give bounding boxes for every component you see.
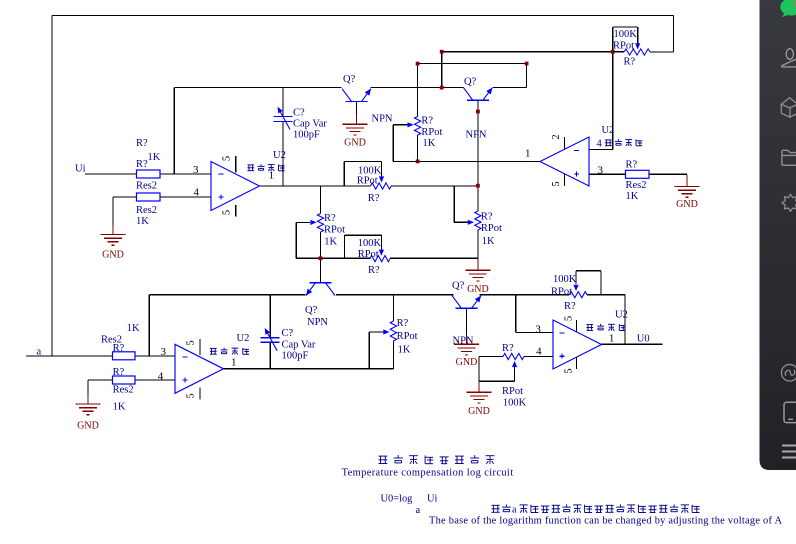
wire U2C output net y369: [223, 368, 394, 370]
svg-text:RPot: RPot: [551, 287, 572, 298]
potentiometer pot4v zigzag: [475, 211, 481, 230]
ground symbol at R2: [101, 235, 126, 261]
svg-text:GND: GND: [676, 199, 698, 210]
wire cap C2 branch upper: [269, 295, 271, 338]
svg-text:NPN: NPN: [466, 130, 487, 141]
potentiometer pot2v zigzag: [317, 214, 323, 233]
wire Q2 base drop to net y186: [477, 100, 479, 185]
svg-text:3: 3: [193, 164, 199, 176]
svg-text:3: 3: [535, 324, 541, 336]
wire feedback drop to U2D output: [624, 295, 626, 345]
resistor R1 body: [137, 170, 161, 178]
ground symbol at Q1: [343, 124, 368, 148]
svg-text:Ui: Ui: [427, 494, 438, 505]
junction at potA left terminal: [611, 50, 615, 54]
ground symbol at potE: [467, 392, 492, 417]
potentiometer potC labels: [357, 166, 382, 205]
junction at Q4 base on net y258: [319, 256, 323, 260]
potentiometer pot6v wiper arrow: [383, 329, 389, 334]
op-amp U2D triangle: [553, 320, 602, 369]
op-amp U2C minus input mark: [183, 356, 188, 358]
power stem GND at R2: [112, 225, 114, 235]
svg-text:Q?: Q?: [305, 305, 318, 316]
potentiometer pot3v labels: [421, 116, 442, 149]
svg-text:1K: 1K: [148, 152, 161, 163]
sidebar circle-s icon: [781, 365, 796, 382]
potentiometer potE wiper arrow: [512, 361, 517, 367]
wire potA box left vertical: [612, 27, 614, 52]
wire potA box top: [613, 26, 638, 28]
resistor R6 body: [113, 376, 136, 384]
sidebar user icon: [782, 49, 796, 67]
sidebar red notification badge: [795, 0, 796, 8]
svg-text:100K: 100K: [358, 238, 382, 249]
wire Q1 collector net from op-amp U2A feedback: [174, 87, 341, 89]
capacitor C1 labels: [293, 108, 327, 141]
svg-text:4: 4: [536, 346, 542, 358]
wire U2A output net y186 left part: [260, 185, 371, 187]
svg-text:R?: R?: [421, 116, 433, 127]
transistor Q2 symbol: [463, 88, 492, 101]
resistor R2 labels: [136, 205, 157, 227]
svg-text:Res2: Res2: [113, 385, 134, 396]
wire corner x515 drop to U2D pin3: [515, 295, 517, 333]
svg-text:R?: R?: [626, 160, 638, 171]
wire U2D pin3 lead: [516, 332, 553, 334]
wire U2A feedback vertical: [173, 88, 175, 174]
svg-text:R?: R?: [368, 265, 380, 276]
wire pot2v bottom through junction to Q4 base: [320, 232, 322, 283]
op-amp U2C top power stub: [199, 339, 201, 355]
svg-text:C?: C?: [293, 108, 305, 119]
svg-text:100K: 100K: [553, 274, 577, 285]
wire pot4v wiper drop from net y186: [453, 186, 455, 222]
op-amp U2A triangle: [211, 162, 260, 211]
op-amp U2A minus input mark: [219, 173, 224, 175]
svg-text:NPN: NPN: [307, 317, 328, 328]
svg-text:1K: 1K: [113, 402, 126, 413]
wire pot3v top terminal from junction y63: [417, 64, 419, 117]
power stem GND at potE: [478, 381, 480, 392]
wire R6 to U2C pin4: [135, 379, 175, 381]
transistor Q1 symbol: [342, 89, 371, 102]
wire Q2 emitter to corner: [493, 87, 527, 89]
svg-text:5: 5: [222, 210, 233, 215]
potentiometer potD labels: [551, 274, 577, 312]
wire net y295 left part: [149, 294, 305, 296]
svg-text:5: 5: [564, 368, 575, 373]
svg-text:R?: R?: [502, 343, 514, 354]
transistor Q4 symbol flipped: [306, 283, 335, 296]
wire net y52 from Q2 junction to potA: [442, 51, 624, 53]
capacitor C1 plates: [274, 117, 293, 122]
sidebar tablet icon: [784, 402, 796, 422]
svg-text:1K: 1K: [423, 138, 436, 149]
wire pot2v wiper box left vertical: [295, 222, 297, 258]
wire pot4v wiper tail: [454, 221, 468, 223]
wire Q1 base drop: [356, 101, 358, 114]
svg-text:Cap Var: Cap Var: [293, 119, 327, 130]
op-amp U2C plus input mark: [183, 378, 188, 383]
resistor R5 labels: [101, 323, 140, 354]
svg-text:100pF: 100pF: [293, 130, 320, 141]
wire R2 left to GND drop: [113, 196, 137, 198]
svg-text:U0: U0: [637, 334, 650, 345]
wire pot6v wiper tail: [369, 331, 384, 333]
svg-text:U2: U2: [237, 333, 250, 344]
junction at pot3v top: [416, 62, 420, 66]
op-amp U2B top power stub: [564, 137, 566, 149]
svg-text:R?: R?: [481, 212, 493, 223]
wire potA wiper tail: [637, 27, 639, 44]
op-amp U2A bottom power stub: [235, 205, 237, 217]
svg-text:3: 3: [598, 164, 604, 176]
svg-text:U2: U2: [615, 310, 628, 321]
svg-text:R?: R?: [136, 159, 148, 170]
svg-text:Ui: Ui: [75, 164, 86, 175]
svg-text:GND: GND: [102, 250, 124, 261]
svg-text:R?: R?: [397, 318, 409, 329]
resistor R5 body: [113, 352, 136, 360]
potentiometer pot3v zigzag: [415, 117, 421, 136]
wire R1 to U2A pin3: [160, 173, 211, 175]
svg-text:2: 2: [551, 134, 562, 139]
wire node a lead: [26, 355, 113, 357]
ground symbol at R6: [76, 404, 101, 432]
op-amp U2A plus input mark: [219, 195, 224, 200]
svg-text:Res2: Res2: [626, 180, 647, 191]
wire Q1 emitter to junction x441: [371, 87, 442, 89]
wire U2C feedback left vertical: [148, 295, 150, 356]
potentiometer potC wiper arrow: [379, 176, 384, 182]
potentiometer potD wiper arrow: [573, 285, 578, 291]
wire potD box wiper tail: [575, 271, 577, 284]
potentiometer pot6v labels: [397, 318, 418, 356]
capacitor C2 labels: [282, 328, 316, 362]
wire potB wiper tail: [380, 235, 382, 251]
junction at x441 y87: [440, 86, 444, 90]
svg-text:The base of the logarithm func: The base of the logarithm function can b…: [429, 516, 782, 527]
resistor R3 body: [626, 170, 650, 178]
wire Ui input lead: [85, 173, 137, 175]
svg-text:GND: GND: [344, 138, 366, 149]
svg-text:R?: R?: [113, 367, 125, 378]
wire R3 to GND corner: [648, 173, 687, 175]
op-amp U2C comment jichengyunfang: [210, 348, 249, 355]
transistor Q3 symbol: [452, 296, 481, 309]
op-amp U2B bottom power stub: [564, 174, 566, 186]
wire R5 to U2C pin3: [135, 355, 175, 357]
op-amp U2D comment jichengyunfang: [586, 324, 625, 331]
svg-text:RPot: RPot: [421, 127, 442, 138]
svg-text:U2: U2: [602, 125, 615, 136]
svg-text:4: 4: [597, 139, 603, 150]
wire net y161 U2B output: [393, 160, 540, 162]
svg-text:1K: 1K: [136, 216, 149, 227]
ground symbol at R3: [675, 187, 700, 210]
capacitor C1 variable arrow: [278, 107, 291, 130]
wire vertical x441 down to emitter net: [441, 52, 443, 88]
wire feedback loop left drop to node a: [51, 16, 53, 357]
wire net y295 potD right to corner: [587, 294, 625, 296]
sidebar gear icon: [782, 194, 796, 211]
wire pot3v bottom terminal to net y161: [417, 135, 419, 161]
op-amp U2D top power stub: [576, 320, 578, 332]
svg-text:RPot: RPot: [357, 176, 378, 187]
svg-text:1K: 1K: [398, 345, 411, 356]
potentiometer potA wiper arrow: [635, 43, 640, 49]
svg-text:U0=log: U0=log: [381, 494, 413, 505]
potentiometer potA labels: [613, 29, 637, 68]
potentiometer potD zigzag: [570, 292, 588, 298]
op-amp U2B plus input mark: [574, 172, 579, 177]
power stem GND at Q1: [356, 114, 358, 124]
wire potE box left vertical: [478, 357, 480, 382]
junction at pot4v top on net y186: [476, 184, 480, 188]
wire potE left terminal: [479, 356, 503, 358]
svg-text:GND: GND: [468, 406, 490, 417]
sidebar folder icon: [782, 150, 796, 165]
svg-text:100K: 100K: [614, 29, 638, 40]
wire potE box bottom: [479, 380, 515, 382]
svg-text:GND: GND: [456, 357, 478, 368]
note chinese tiaojie: [492, 504, 511, 512]
sidebar hamburger menu icon: [782, 446, 796, 458]
svg-text:1: 1: [525, 148, 531, 160]
resistor R6 labels: [113, 367, 134, 413]
wire U2B pin4 vertical to potA junction: [612, 52, 614, 150]
op-amp U2C triangle: [175, 344, 224, 393]
svg-text:RPot: RPot: [481, 223, 502, 234]
svg-text:1: 1: [609, 333, 615, 345]
junction on Q2 base wire: [476, 110, 480, 114]
power stem GND at pot4v: [477, 258, 479, 270]
wire R2 to U2A pin4: [160, 196, 211, 198]
potentiometer pot2v wiper arrow: [310, 220, 316, 225]
wire potB box left vertical: [344, 235, 346, 258]
title chinese wendu buchang duishu dianlu: [379, 455, 495, 464]
wire Q2 collector from junction: [442, 87, 464, 89]
junction at emitter corner x526: [525, 62, 529, 66]
wire pot3v wiper tail: [393, 124, 409, 126]
potentiometer pot3v wiper arrow: [408, 122, 414, 127]
svg-text:U2: U2: [273, 150, 286, 161]
potentiometer pot4v labels: [481, 212, 502, 248]
wire Q3 base drop: [466, 308, 468, 334]
svg-text:5: 5: [222, 156, 233, 161]
wire potD box top: [576, 270, 601, 272]
svg-text:1K: 1K: [482, 236, 495, 247]
potentiometer potB labels: [358, 238, 382, 276]
svg-text:3: 3: [161, 346, 167, 358]
svg-text:RPot: RPot: [397, 331, 418, 342]
sidebar green chat bubble icon: [780, 0, 796, 17]
junction at Q2 top net: [440, 50, 444, 54]
svg-text:Res2: Res2: [136, 205, 157, 216]
ground symbol at pot4v: [465, 270, 490, 295]
wire pot3v wiper box left vertical: [392, 125, 394, 162]
svg-text:1K: 1K: [626, 191, 639, 202]
wire net y63 between junctions: [418, 63, 527, 65]
wire net y295 middle part: [336, 294, 454, 296]
svg-text:5: 5: [564, 316, 575, 321]
svg-text:RPot: RPot: [324, 225, 345, 236]
junction at pot3v bottom on net y161: [416, 160, 420, 164]
wire pot2v wiper tail: [296, 221, 310, 223]
potentiometer potE labels: [502, 343, 527, 408]
wire vertical x526 down to Q2 emitter: [526, 64, 528, 88]
wire potA right terminal link: [650, 51, 674, 53]
power stem GND at R3: [686, 174, 688, 186]
svg-text:1K: 1K: [127, 323, 140, 334]
wire potB box top: [345, 234, 382, 236]
svg-text:4: 4: [194, 187, 200, 199]
svg-text:GND: GND: [467, 284, 489, 295]
potentiometer pot6v zigzag: [390, 321, 396, 341]
op-amp U2D plus input mark: [560, 354, 565, 359]
resistor R2 body: [137, 193, 161, 201]
op-amp U2D bottom power stub: [576, 357, 578, 369]
wire U2B pin4 lead: [589, 149, 613, 151]
capacitor C2 plates: [261, 338, 280, 343]
svg-text:1K: 1K: [324, 237, 337, 248]
svg-text:a: a: [416, 505, 421, 516]
potentiometer potE zigzag: [503, 353, 524, 359]
svg-text:5: 5: [186, 340, 197, 345]
resistor R1 labels: [136, 138, 161, 192]
svg-text:a: a: [512, 504, 517, 515]
wire cap C1 branch lower: [282, 122, 284, 187]
svg-text:100pF: 100pF: [282, 351, 309, 362]
wire pot6v bottom terminal: [392, 341, 394, 369]
sidebar panel: [760, 0, 796, 470]
svg-text:R?: R?: [624, 57, 636, 68]
wire U2D output to U0: [602, 343, 663, 345]
wire pot4v bottom terminal: [477, 230, 479, 258]
svg-text:GND: GND: [77, 421, 99, 432]
svg-text:Res2: Res2: [136, 181, 157, 192]
svg-text:4: 4: [158, 371, 164, 383]
wire pot4v top terminal: [477, 186, 479, 211]
svg-text:R?: R?: [368, 193, 380, 204]
svg-text:Cap Var: Cap Var: [282, 340, 316, 351]
wire net y295 right part Q3 emitter side: [480, 294, 570, 296]
op-amp U2A comment jichengyunfang: [247, 164, 284, 171]
op-amp U2A top power stub: [235, 156, 237, 173]
op-amp U2C bottom power stub: [199, 388, 201, 400]
potentiometer potC zigzag: [371, 183, 392, 189]
svg-text:C?: C?: [282, 328, 294, 339]
potentiometer pot4v wiper arrow: [468, 220, 474, 225]
svg-text:100K: 100K: [503, 397, 527, 408]
svg-text:RPot: RPot: [502, 386, 523, 397]
wire potE wiper tail: [514, 367, 516, 382]
wire pot6v top terminal: [392, 295, 394, 321]
potentiometer potB wiper arrow: [379, 250, 384, 256]
svg-text:R?: R?: [564, 301, 576, 312]
power stem GND at Q3: [466, 334, 468, 344]
wire vertical x320 from output to pot2v: [320, 186, 322, 214]
svg-text:1: 1: [231, 357, 237, 369]
wire potD box right vertical: [600, 271, 602, 295]
svg-text:RPot: RPot: [613, 41, 634, 52]
wire feedback loop top: [52, 15, 674, 17]
op-amp U2B minus input mark: [574, 150, 579, 152]
potentiometer pot2v labels: [324, 213, 345, 248]
op-amp U2B triangle mirrored: [540, 137, 589, 186]
svg-text:R?: R?: [136, 138, 148, 149]
capacitor C2 variable arrow: [265, 328, 278, 351]
op-amp U2D minus input mark: [560, 332, 565, 334]
svg-text:Q?: Q?: [343, 74, 356, 85]
svg-text:5: 5: [186, 393, 197, 398]
svg-text:RPot: RPot: [358, 249, 379, 260]
wire pot6v wiper box left vertical: [368, 332, 370, 369]
wire net y258 right part: [390, 257, 478, 259]
svg-text:Temperature compensation log c: Temperature compensation log circuit: [342, 468, 514, 479]
potentiometer potB zigzag: [370, 256, 390, 262]
svg-text:R?: R?: [324, 213, 336, 224]
wire GND drop at R6: [87, 380, 89, 394]
svg-text:1: 1: [269, 170, 275, 182]
wire cap C1 branch upper: [282, 88, 284, 117]
svg-text:NPN: NPN: [372, 114, 393, 125]
svg-text:Q?: Q?: [464, 77, 477, 88]
wire U2B pin3 lead to R3: [589, 173, 626, 175]
resistor R3 labels: [626, 160, 647, 203]
wire U2A output net y186 right part: [391, 185, 478, 187]
power stem GND at R6: [87, 394, 89, 404]
wire U2D pin4 lead: [524, 356, 553, 358]
wire potC wiper tail: [381, 162, 383, 178]
sidebar cube icon: [781, 98, 796, 118]
potentiometer potA zigzag: [624, 49, 650, 55]
wire net y258 left part: [296, 257, 370, 259]
ground symbol at Q3: [454, 344, 479, 368]
svg-text:a: a: [37, 347, 42, 358]
svg-text:5: 5: [551, 181, 562, 186]
wire potC box left vertical: [343, 162, 345, 186]
wire potC box top: [344, 161, 381, 163]
wire R6 left to GND drop: [88, 379, 113, 381]
svg-text:R?: R?: [113, 343, 125, 354]
wire feedback loop right drop: [673, 16, 675, 53]
wire GND drop at R2: [112, 197, 114, 225]
svg-text:Q?: Q?: [452, 281, 465, 292]
wire cap C2 branch lower: [269, 342, 271, 369]
